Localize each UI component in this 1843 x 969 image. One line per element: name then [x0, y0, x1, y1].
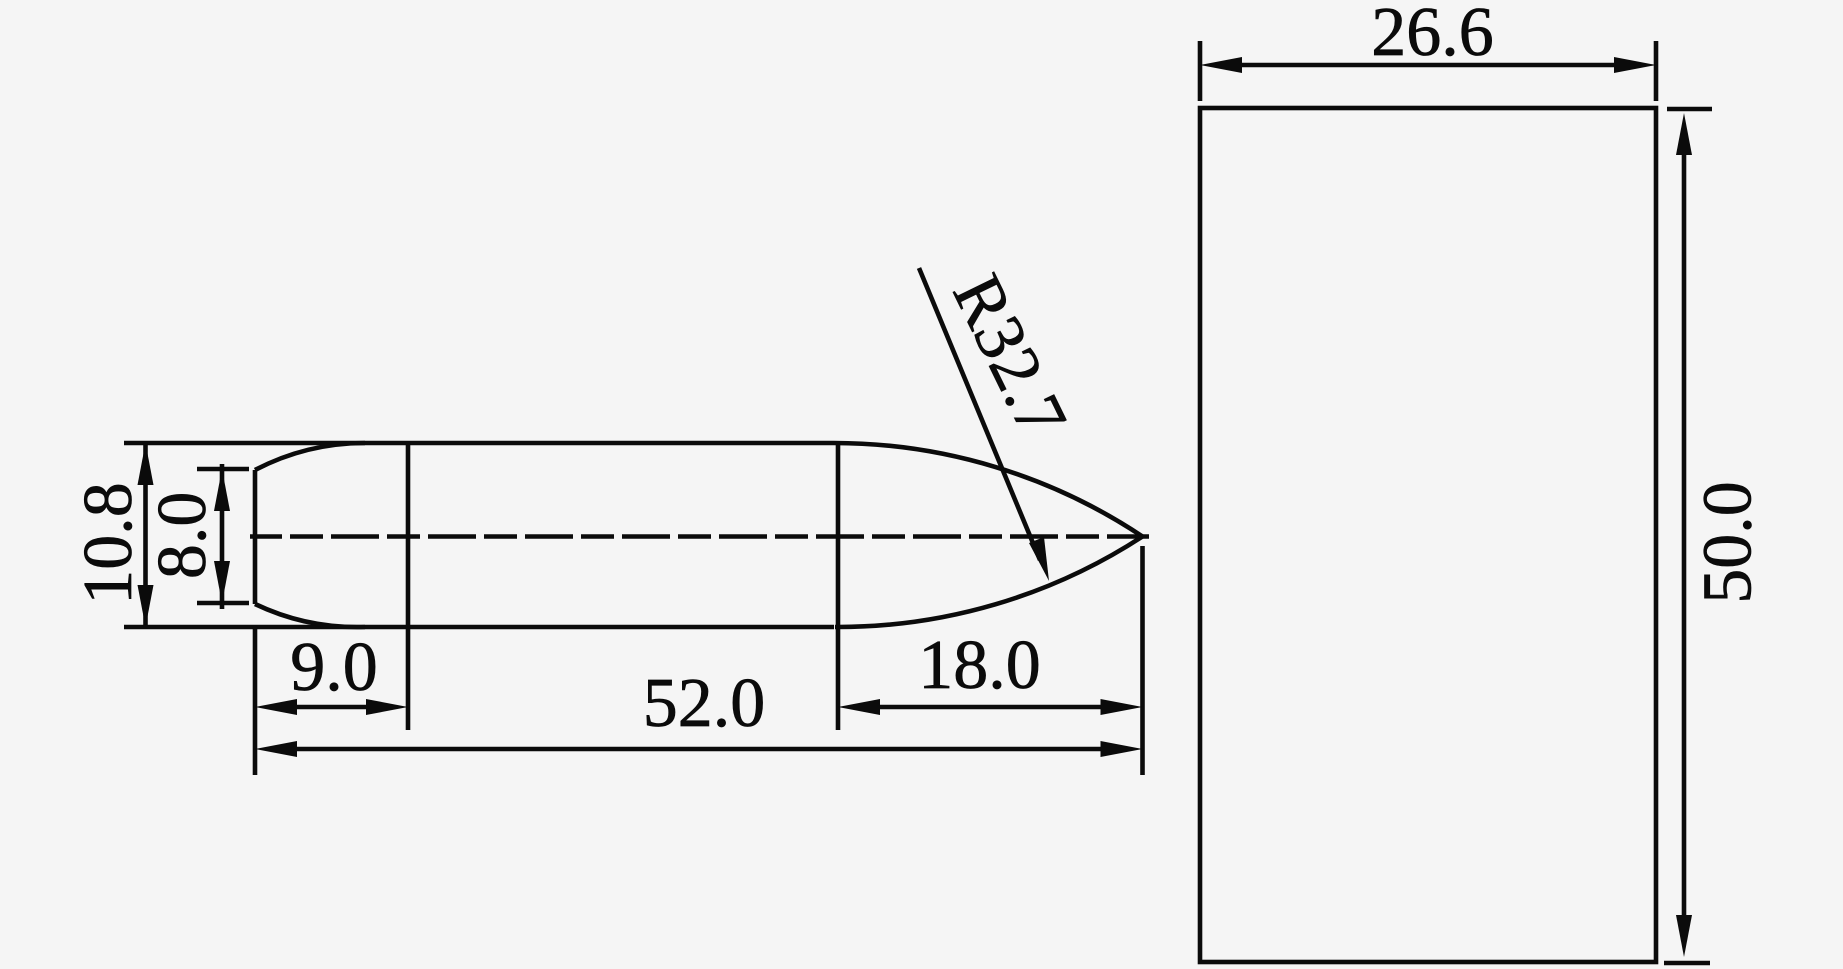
- extension line 8.0 bottom: [197, 601, 249, 606]
- bullet boat-tail bottom arc: [255, 604, 365, 627]
- arrow 10.8 bottom: [138, 585, 154, 627]
- rectangle view: [1200, 108, 1656, 962]
- dim line 26.6: [1240, 63, 1616, 68]
- bullet body bottom line: [124, 625, 834, 630]
- extension tick 50.0 bottom: [1664, 961, 1710, 966]
- arrow leader R32.7: [1029, 537, 1049, 581]
- arrow 52.0 left: [255, 741, 297, 757]
- arrow 9.0 left: [255, 699, 297, 715]
- arrow 26.6 left: [1200, 57, 1242, 73]
- svg-text:R32.7: R32.7: [938, 263, 1081, 449]
- extension line below bullet tip: [1140, 546, 1145, 775]
- arrow 8.0 bottom: [214, 561, 230, 603]
- dim line 52.0: [285, 747, 1112, 752]
- svg-text:9.0: 9.0: [290, 629, 378, 706]
- svg-text:8.0: 8.0: [144, 492, 221, 580]
- dim line 9.0: [285, 705, 378, 710]
- svg-text:10.8: 10.8: [70, 482, 147, 605]
- dashed center line: [250, 534, 1149, 539]
- feature line at ogive start: [836, 443, 841, 730]
- dim line 10.8: [143, 443, 148, 627]
- svg-text:50.0: 50.0: [1690, 481, 1767, 604]
- svg-text:18.0: 18.0: [918, 627, 1041, 704]
- arrow 26.6 right: [1614, 57, 1656, 73]
- arrow 10.8 top: [138, 443, 154, 485]
- arrow 9.0 right: [366, 699, 408, 715]
- extension line below tail face: [253, 627, 258, 775]
- extension line 26.6 right: [1654, 41, 1659, 101]
- arrow 52.0 right: [1101, 741, 1143, 757]
- arrow 50.0 top: [1676, 113, 1692, 155]
- dim line 8.0: [220, 464, 225, 609]
- bullet boat-tail top arc: [255, 443, 365, 470]
- extension line 26.6 left: [1198, 41, 1203, 101]
- arrow 8.0 top: [214, 469, 230, 511]
- svg-text:26.6: 26.6: [1371, 0, 1494, 71]
- extension tick 50.0 top: [1667, 107, 1712, 112]
- arrow 18.0 right: [1101, 699, 1143, 715]
- arrow 50.0 bottom: [1676, 915, 1692, 957]
- svg-text:52.0: 52.0: [643, 665, 766, 742]
- bullet ogive top arc: [834, 443, 1143, 537]
- arrow 18.0 left: [838, 699, 880, 715]
- dim line 50.0: [1682, 150, 1687, 920]
- bullet ogive bottom arc: [835, 537, 1143, 628]
- bullet tail face: [253, 470, 258, 604]
- dim line 18.0: [868, 705, 1112, 710]
- leader line R32.7: [919, 268, 1040, 560]
- feature line at 9.0 boundary: [406, 443, 411, 730]
- extension line 8.0 top: [197, 467, 249, 472]
- bullet body top line: [124, 441, 834, 446]
